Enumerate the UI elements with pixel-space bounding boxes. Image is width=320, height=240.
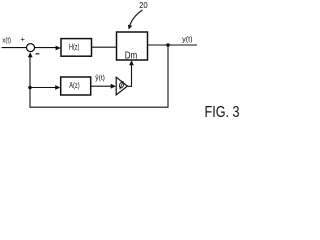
wire input x(t) to summer [2, 47, 27, 49]
svg-text:H(z): H(z) [69, 42, 80, 52]
svg-text:x(t): x(t) [2, 37, 11, 44]
wire feedback vertical left up to summer [29, 56, 31, 108]
block Dm (delta modulator) [117, 32, 148, 60]
summing junction [27, 44, 35, 52]
node junction dot on feedback branch [28, 86, 32, 90]
wire quantizer to Dm bottom [127, 63, 131, 86]
svg-text:y(t): y(t) [182, 35, 192, 44]
quantizer symbol theta [118, 80, 125, 90]
svg-text:20: 20 [139, 1, 148, 10]
block A(z) [61, 77, 91, 95]
node junction dot on output [166, 43, 170, 47]
svg-text:ŷ(t): ŷ(t) [95, 75, 105, 82]
wire feedback bottom [30, 106, 169, 108]
svg-text:+: + [21, 35, 26, 44]
wire A(z) to quantizer [91, 85, 113, 87]
minus sign label [36, 53, 40, 55]
leader arrow from 20 to Dm [130, 10, 143, 26]
wire output Dm to y(t) [148, 44, 198, 46]
quantizer triangle [116, 77, 127, 95]
wire feedback vertical right [167, 45, 169, 107]
svg-text:FIG. 3: FIG. 3 [205, 104, 240, 121]
svg-text:Dm: Dm [125, 51, 138, 62]
wire H(z) to Dm [92, 46, 117, 48]
wire branch to A(z) [30, 87, 57, 89]
wire summer to H(z) [35, 47, 58, 49]
svg-text:A(z): A(z) [69, 80, 80, 90]
block H(z) [61, 39, 92, 57]
